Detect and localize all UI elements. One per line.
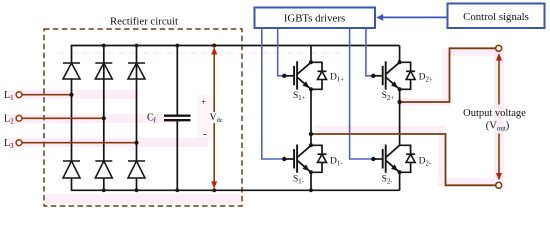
leg A mid wire <box>310 89 312 145</box>
node cap bottom <box>175 188 179 192</box>
upper output wire <box>400 48 496 102</box>
leg B lower wire <box>399 172 401 190</box>
pink highlight under lower output wire <box>315 130 494 182</box>
node L2/leg2 <box>102 116 106 120</box>
output terminal top <box>496 45 502 51</box>
terminal L3 <box>4 138 139 150</box>
IGBT S1+ <box>282 60 313 102</box>
pink highlight bottom band inside rectifier box <box>46 194 242 204</box>
pink highlight under L3 wire <box>8 138 208 147</box>
diode top leg2 <box>95 63 112 79</box>
wire L2 to leg2 <box>22 117 104 119</box>
node leg3 top bus <box>135 44 139 48</box>
bottom DC bus <box>72 179 400 191</box>
IGBTs drivers box <box>255 8 376 29</box>
svg-text:IGBTs drivers: IGBTs drivers <box>284 13 345 25</box>
lower output wire <box>311 134 496 185</box>
Control signals box <box>448 4 545 29</box>
svg-text:Output voltage: Output voltage <box>463 108 526 119</box>
pink dashed artifact line across top of rectifier <box>58 52 340 54</box>
svg-text:-: - <box>203 128 207 140</box>
leg B mid wire <box>399 89 401 145</box>
leg A lower wire <box>310 172 312 190</box>
output voltage arrow <box>496 53 502 181</box>
node leg A bottom bus <box>309 188 313 192</box>
top DC bus <box>72 46 400 64</box>
node leg A output <box>309 132 313 136</box>
diode top leg1 <box>63 63 80 79</box>
pink highlight near Vdc arrow <box>197 95 211 139</box>
terminal L2 <box>4 114 106 126</box>
wire L3 to leg3 <box>22 142 137 144</box>
dashed rectifier boundary box <box>44 29 242 206</box>
svg-text:Control signals: Control signals <box>463 11 529 23</box>
IGBT S2+ <box>371 60 402 102</box>
leg B upper wire <box>399 46 401 63</box>
Vdc measurement arrow <box>201 44 223 193</box>
rectifier leg 3 wire <box>136 46 138 162</box>
rectifier leg 2 wire <box>103 46 105 162</box>
capacitor Cf <box>147 44 191 193</box>
diode D1+ <box>311 62 344 89</box>
pink highlight under upper output wire <box>399 52 496 102</box>
gate wire S2- <box>350 29 372 159</box>
rectifier leg 1 wire segments <box>71 79 73 161</box>
gate wire S1- (outer left) <box>262 29 283 159</box>
leg A upper wire <box>310 46 312 63</box>
diode D2- <box>400 145 432 172</box>
node leg B output <box>397 100 401 104</box>
gate wire S2+ <box>366 29 372 76</box>
gate wire S1+ <box>278 29 283 76</box>
diode bottom leg3 <box>128 161 145 178</box>
diode bottom leg2 <box>95 161 112 178</box>
node leg2 bottom bus <box>102 188 106 192</box>
diode top leg3 <box>128 63 145 79</box>
node L3/leg3 <box>135 141 139 145</box>
svg-text:+: + <box>201 97 206 107</box>
node leg3 bottom bus <box>135 188 139 192</box>
node leg2 top bus <box>102 44 106 48</box>
pink highlight under output voltage arrow <box>494 50 504 184</box>
svg-text:Rectifier circuit: Rectifier circuit <box>110 16 178 28</box>
diode D2+ <box>400 62 433 89</box>
pink highlight under L2 wire <box>8 114 180 123</box>
node cap top <box>175 44 179 48</box>
IGBT S1- <box>282 143 313 185</box>
node L1/leg1 <box>70 93 74 97</box>
terminal L1 <box>4 90 74 102</box>
control arrow <box>376 14 447 21</box>
wire L1 to leg1 <box>22 94 72 96</box>
diode D1- <box>311 145 343 172</box>
pink highlight under L1 wire <box>8 90 138 99</box>
IGBT S2- <box>371 145 402 186</box>
diode bottom leg1 <box>63 161 80 178</box>
output terminal bottom <box>496 182 502 188</box>
